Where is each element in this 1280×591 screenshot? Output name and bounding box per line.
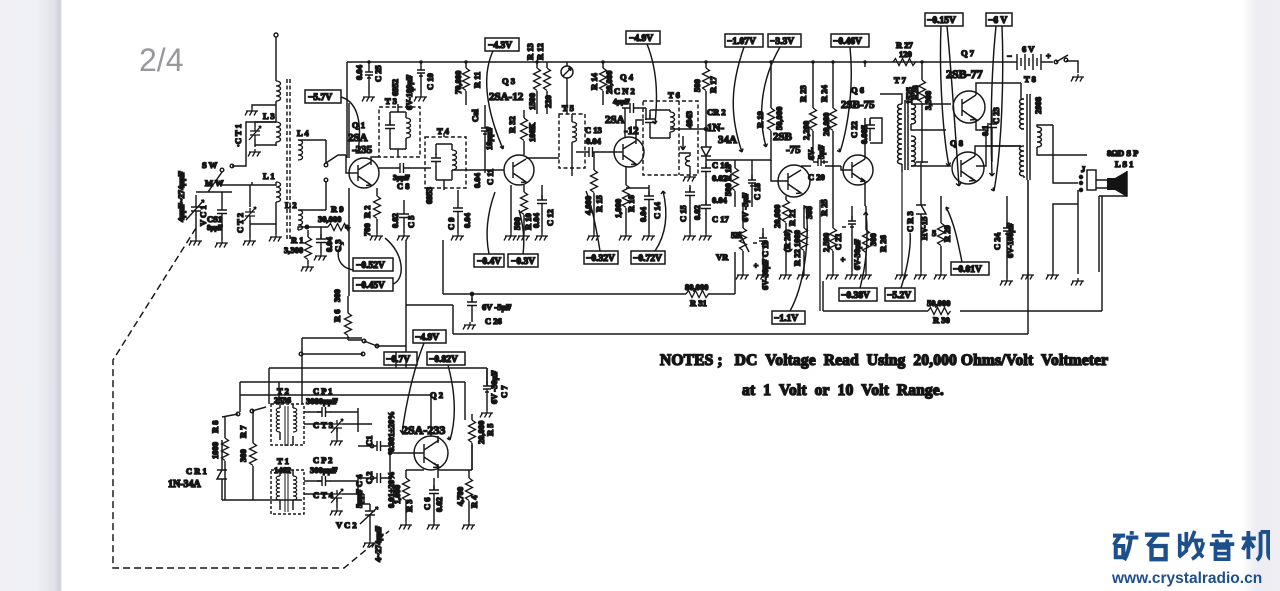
ground C9	[451, 233, 464, 241]
svg-text:300: 300	[868, 233, 878, 246]
svg-text:R 17: R 17	[708, 75, 718, 93]
svg-text:1,000: 1,000	[613, 199, 623, 218]
wire Q4 collector	[636, 120, 644, 144]
svg-text:4,700: 4,700	[455, 487, 465, 506]
svg-text:R 4: R 4	[469, 495, 479, 508]
ground R16	[619, 233, 632, 241]
wire L2 top	[298, 209, 326, 211]
svg-text:CS1: CS1	[207, 214, 222, 224]
cap CN2	[625, 103, 639, 113]
trimmer CT3	[331, 419, 343, 433]
trimmer CT1	[249, 126, 261, 140]
OT primary upper	[1020, 99, 1025, 129]
leader -0.72V	[655, 191, 666, 251]
resistor R16	[623, 185, 630, 208]
ground spk1	[1046, 272, 1059, 280]
resistor R29	[938, 223, 945, 246]
ground CS1	[215, 240, 228, 248]
wire CT1 leads	[255, 122, 276, 147]
svg-text:R 7: R 7	[238, 425, 248, 438]
cap C3	[316, 234, 326, 248]
voltage box -0.7V	[384, 352, 417, 365]
transistor Q1	[349, 158, 379, 188]
variable cap VC2	[360, 504, 378, 540]
ground R3	[399, 522, 412, 530]
svg-text:4943: 4943	[684, 111, 694, 128]
resistor R18	[732, 168, 739, 191]
speaker LS1	[1107, 171, 1127, 197]
svg-text:R 13: R 13	[525, 43, 535, 60]
voltage box -0.45V	[353, 278, 393, 291]
svg-text:0.04: 0.04	[462, 212, 472, 228]
svg-text:NOTES ; DC Voltage Read U: NOTES ; DC Voltage Read Using 20,000 Ohm…	[660, 352, 1108, 369]
svg-text:3,300: 3,300	[284, 245, 303, 255]
ground C25	[362, 94, 375, 102]
svg-text:100K: 100K	[527, 122, 537, 142]
svg-text:1N-34A: 1N-34A	[168, 479, 202, 490]
voltage box -0.72V	[631, 251, 665, 264]
svg-text:T 6: T 6	[668, 90, 680, 100]
svg-text:1000: 1000	[210, 442, 220, 459]
svg-text:6V-: 6V-	[806, 147, 816, 160]
svg-text:C 24: C 24	[992, 232, 1002, 250]
osc tank2 wires	[304, 476, 364, 508]
cap C19 electrolytic	[759, 233, 767, 248]
watermark char ji	[1242, 531, 1272, 560]
svg-text:5μμF C 4: 5μμF C 4	[354, 474, 364, 508]
svg-text:20,000: 20,000	[772, 205, 782, 228]
svg-text:−0.45V: −0.45V	[356, 281, 385, 291]
T1 wires	[280, 470, 293, 510]
svg-text:C 20: C 20	[808, 172, 825, 182]
wire VC2 top	[358, 494, 370, 504]
svg-text:R 29: R 29	[942, 225, 952, 242]
cap C9	[453, 203, 463, 217]
T3 coil	[406, 118, 411, 138]
wire Q1 base	[350, 172, 358, 174]
ground C14	[642, 233, 655, 241]
svg-text:−0.32V: −0.32V	[586, 254, 615, 264]
ground C17	[699, 233, 712, 241]
resistor R24	[830, 108, 837, 131]
resistor R14	[600, 68, 607, 91]
diode CR2	[701, 129, 711, 164]
T3 cap	[385, 120, 395, 134]
voltage box -5.7V	[305, 90, 361, 152]
leader -0.32V	[586, 191, 600, 251]
svg-text:6V-30μF C 19: 6V-30μF C 19	[760, 240, 770, 290]
voltage box -0.82V	[427, 352, 465, 440]
svg-text:5: 5	[932, 228, 936, 238]
svg-text:R 19: R 19	[755, 111, 765, 128]
cap C2	[372, 473, 386, 483]
resistor R17	[703, 68, 710, 91]
transformer T4 dashed box	[425, 137, 466, 188]
voltage box -0.38V	[839, 212, 877, 301]
svg-text:0.1: 0.1	[980, 125, 990, 136]
svg-text:1,000: 1,000	[392, 485, 402, 504]
ground L3	[248, 149, 261, 157]
cap C24 electrolytic	[1003, 223, 1011, 238]
T6 sec coil	[686, 156, 691, 166]
svg-text:R 32: R 32	[507, 116, 517, 133]
svg-text:−0.72V: −0.72V	[633, 254, 662, 264]
voltage box -0.15V	[925, 13, 963, 186]
svg-text:Q 7: Q 7	[961, 48, 975, 58]
wire Q8 collector	[975, 146, 1021, 156]
wire Q1 collector up	[371, 157, 379, 165]
wire Q6 emitter	[864, 182, 866, 206]
wire antenna down	[275, 37, 277, 81]
svg-text:R 6: R 6	[332, 309, 342, 322]
svg-text:34A: 34A	[718, 134, 737, 146]
voltage box -6V	[986, 13, 1012, 191]
svg-text:C 23: C 23	[991, 107, 1001, 124]
svg-text:C T 4: C T 4	[313, 490, 334, 500]
ground VC2	[363, 540, 376, 548]
trimmer CT2	[244, 207, 256, 221]
svg-text:−0.52V: −0.52V	[356, 261, 385, 271]
svg-text:R 1: R 1	[291, 235, 304, 245]
svg-text:R 9: R 9	[331, 204, 344, 214]
svg-text:R 31: R 31	[690, 298, 707, 308]
resistor R11	[463, 68, 470, 91]
svg-text:T 7: T 7	[894, 75, 907, 85]
svg-text:−4.9V: −4.9V	[415, 333, 439, 343]
ground C24	[1000, 278, 1013, 286]
antenna terminal	[274, 33, 278, 37]
svg-text:+: +	[838, 257, 848, 262]
svg-text:Q 3: Q 3	[502, 76, 515, 86]
svg-text:C 5: C 5	[406, 215, 416, 228]
T6 coil	[670, 112, 675, 132]
svg-text:R 2: R 2	[362, 205, 372, 218]
svg-text:C 17: C 17	[712, 214, 730, 224]
svg-text:6 V: 6 V	[1022, 44, 1035, 54]
resistor R9	[328, 224, 351, 231]
svg-text:0.02: 0.02	[434, 497, 444, 512]
svg-text:2908: 2908	[1033, 97, 1043, 114]
ground T6	[683, 174, 696, 182]
svg-text:2536: 2536	[274, 395, 291, 405]
ground C10	[414, 94, 427, 102]
svg-text:500: 500	[692, 79, 702, 92]
T4 cap	[431, 153, 441, 167]
leader -0.45V	[385, 238, 401, 284]
output transformer core	[1027, 94, 1030, 180]
svg-text:20,000: 20,000	[604, 71, 614, 94]
cap C22	[865, 120, 875, 134]
svg-text:220: 220	[543, 95, 553, 108]
svg-text:−0.82V: −0.82V	[429, 355, 458, 365]
svg-text:6V-100μF: 6V-100μF	[404, 75, 414, 110]
svg-text:−0.01V: −0.01V	[953, 265, 982, 275]
svg-text:C 25: C 25	[373, 65, 383, 82]
voltage box -0.01V	[946, 207, 989, 275]
svg-text:−0.15V: −0.15V	[927, 16, 956, 26]
resistor R25	[830, 228, 837, 251]
cap C14	[644, 191, 654, 205]
svg-text:50,000: 50,000	[774, 107, 784, 130]
svg-text:300: 300	[804, 206, 814, 219]
cap C13	[584, 147, 598, 157]
svg-text:R 3: R 3	[404, 499, 414, 512]
ground VR	[736, 272, 749, 280]
ground C5	[397, 233, 410, 241]
svg-text:0.02: 0.02	[390, 213, 400, 228]
T7 wires	[880, 94, 951, 172]
cap C21 electrolytic	[848, 216, 856, 231]
wire det bus	[706, 160, 752, 207]
transistor Q3	[504, 155, 534, 185]
svg-text:-12: -12	[624, 125, 639, 137]
resistor R19	[768, 108, 775, 131]
ground	[245, 108, 258, 116]
svg-text:0.04: 0.04	[586, 136, 602, 146]
svg-text:700: 700	[362, 223, 372, 236]
ground R15	[587, 233, 600, 241]
resistor R28	[919, 80, 926, 103]
svg-text:Q 1: Q 1	[352, 120, 365, 130]
resistor R3	[403, 478, 410, 501]
voltage box -5.2V	[885, 233, 915, 301]
svg-text:R 15: R 15	[594, 195, 604, 212]
voltage box -0.52V	[353, 258, 393, 271]
svg-text:70,000: 70,000	[453, 71, 463, 94]
wire L4	[298, 140, 326, 160]
svg-text:C 9: C 9	[446, 217, 456, 230]
svg-text:C 6: C 6	[422, 497, 432, 510]
svg-text:VR: VR	[716, 252, 729, 262]
voltage box -4.9V osc	[400, 330, 446, 433]
svg-text:C P 1: C P 1	[313, 386, 332, 396]
resistor R30	[928, 308, 951, 315]
wire sw to L1	[222, 182, 252, 185]
wire base feed	[338, 155, 350, 173]
OT wires	[1021, 99, 1053, 178]
T7 sec upper	[911, 104, 916, 124]
transistor Q5	[778, 165, 810, 197]
svg-text:J: J	[1081, 164, 1086, 174]
watermark char shi	[1145, 535, 1169, 559]
resistor R8	[222, 438, 229, 461]
svg-text:C 10: C 10	[425, 73, 435, 90]
cap C6	[429, 485, 439, 499]
svg-text:C T 3: C T 3	[313, 420, 333, 430]
transformer T2 box	[271, 404, 304, 445]
resistor R26	[863, 230, 870, 253]
svg-text:2SB: 2SB	[773, 131, 793, 143]
ground switch	[1071, 74, 1084, 82]
svg-text:C R 1: C R 1	[186, 466, 207, 476]
T4 coil	[452, 150, 457, 170]
svg-text:T 8: T 8	[1024, 74, 1036, 84]
transistor Q8	[952, 152, 984, 184]
svg-text:C P 2: C P 2	[313, 455, 332, 465]
svg-text:T 5: T 5	[562, 103, 574, 113]
ground C12	[535, 233, 548, 241]
dash-dot tuning line	[113, 228, 389, 568]
svg-text:3080μμF: 3080μμF	[306, 396, 338, 406]
svg-text:6952: 6952	[390, 79, 400, 96]
cap C17	[701, 200, 711, 214]
ground C19	[756, 272, 769, 280]
coil L4	[298, 140, 303, 160]
svg-text:50,000: 50,000	[927, 298, 950, 308]
svg-text:C 18: C 18	[752, 183, 762, 200]
svg-text:at 1 Volt or 10 Volt Ran: at 1 Volt or 10 Volt Range.	[742, 382, 944, 399]
svg-text:Q 2: Q 2	[430, 390, 443, 400]
svg-text:+: +	[1046, 51, 1051, 61]
svg-text:6V -5μF: 6V -5μF	[740, 193, 750, 222]
top supply rail	[347, 61, 905, 63]
svg-text:−3.3V: −3.3V	[770, 37, 794, 47]
svg-text:·C T 1: ·C T 1	[233, 124, 243, 147]
cap C11	[481, 123, 489, 138]
svg-text:C 12: C 12	[545, 209, 555, 226]
watermark char kuang	[1113, 531, 1138, 560]
leader -0.3V	[519, 210, 524, 254]
T2 wires	[280, 404, 293, 445]
svg-text:5μF: 5μF	[816, 145, 826, 159]
T5 coil	[572, 122, 577, 142]
svg-text:C T 2: C T 2	[235, 213, 245, 233]
svg-text:3,300: 3,300	[923, 91, 933, 110]
ground T7	[895, 272, 908, 280]
voltage box -4.3V	[485, 38, 519, 149]
svg-text:30,000: 30,000	[318, 214, 341, 224]
cap C8 series	[395, 163, 409, 173]
svg-text:4μμF: 4μμF	[613, 97, 630, 106]
T3 wires	[390, 112, 406, 157]
agc vertical	[348, 103, 350, 296]
T6 inner partition	[678, 101, 680, 175]
cap C26	[467, 297, 477, 311]
svg-text:20,000: 20,000	[821, 113, 831, 136]
svg-text:−6 V: −6 V	[988, 16, 1007, 26]
svg-text:10μμF: 10μμF	[484, 127, 494, 150]
coil L3	[276, 122, 281, 142]
ground R1	[301, 264, 314, 272]
svg-text:L S 1: L S 1	[1115, 159, 1133, 169]
cap CS1	[217, 205, 227, 219]
resistor R21	[783, 200, 790, 223]
svg-text:2SA: 2SA	[348, 132, 368, 144]
svg-text:-75: -75	[786, 144, 801, 156]
svg-text:−5.7V: −5.7V	[308, 93, 332, 103]
ground Q3e	[504, 233, 517, 241]
svg-text:R 16: R 16	[626, 195, 636, 212]
cap C20 series	[813, 158, 828, 166]
svg-text:C 26: C 26	[485, 316, 502, 326]
switch contacts to Q1 base	[324, 163, 328, 167]
cap C12	[537, 195, 547, 209]
svg-text:8μμF: 8μμF	[207, 224, 223, 232]
output stage frame	[823, 196, 1102, 311]
leader -0.4V	[487, 192, 495, 254]
svg-text:Cal: Cal	[470, 109, 480, 122]
svg-text:V C 2: V C 2	[336, 520, 357, 530]
wire Q5 base	[752, 160, 788, 181]
osc bus lower	[240, 338, 431, 436]
transistor Q4	[614, 137, 644, 167]
coil L1	[276, 182, 281, 202]
svg-text:0.005: 0.005	[859, 125, 869, 144]
T7 sec lower	[911, 136, 916, 166]
wire T4 out to Q3	[452, 169, 504, 171]
svg-text:L 2: L 2	[285, 200, 297, 210]
variable cap VC1	[186, 195, 204, 238]
cap CP1	[317, 407, 331, 417]
svg-text:2SA-233: 2SA-233	[402, 423, 445, 437]
wire Q2 base	[390, 452, 424, 454]
trimmer CT4	[331, 489, 343, 503]
watermark char shou	[1179, 531, 1203, 559]
transformer T5 dashed box	[559, 114, 585, 168]
osc switch	[236, 412, 240, 416]
coil L2	[298, 210, 303, 230]
resistor R10	[521, 192, 528, 215]
wire meter	[566, 62, 568, 114]
ground spk2	[1071, 278, 1084, 286]
resistor R31	[686, 291, 709, 298]
svg-text:−1.1V: −1.1V	[774, 314, 798, 324]
volume VR 5K	[740, 228, 747, 251]
cap C1	[372, 441, 386, 451]
svg-text:0.04: 0.04	[638, 206, 648, 222]
ground OT	[1021, 272, 1034, 280]
svg-text:R 21: R 21	[787, 209, 797, 226]
svg-text:120: 120	[899, 49, 912, 59]
svg-text:−: −	[1007, 51, 1012, 61]
resistor R13	[534, 68, 541, 91]
resistor R2	[374, 196, 381, 219]
transformer T6 dashed box	[643, 101, 698, 175]
wire T3 top to rail	[397, 104, 399, 112]
cap C15	[685, 187, 695, 201]
svg-text:6V-100μF: 6V-100μF	[1005, 223, 1015, 258]
svg-text:2SA-12: 2SA-12	[489, 91, 524, 103]
svg-text:R 23: R 23	[798, 85, 808, 102]
wire CS1	[196, 192, 232, 240]
agc curve arrow	[338, 242, 365, 270]
wire CT2	[250, 185, 276, 238]
resistor R5	[469, 420, 476, 443]
svg-text:1500: 1500	[527, 93, 537, 110]
resistor R4	[466, 478, 473, 501]
svg-text:−4.9V: −4.9V	[629, 34, 653, 44]
voltage box -3.3V	[762, 34, 801, 147]
osc coupling wires	[358, 446, 390, 478]
bus agc lower	[443, 240, 735, 294]
svg-text:C 11: C 11	[485, 169, 495, 185]
resistor R15	[591, 170, 598, 193]
OT primary lower	[1020, 146, 1025, 176]
svg-text:500: 500	[512, 217, 522, 230]
gang dashed link	[287, 79, 290, 240]
svg-text:0.04: 0.04	[472, 172, 482, 188]
cap C18 electrolytic	[748, 175, 756, 190]
transistor Q7	[953, 91, 985, 123]
wire speaker return	[1053, 171, 1127, 274]
voltage box -4.9V	[626, 31, 660, 124]
resistor R22	[801, 228, 808, 251]
svg-text:5K: 5K	[731, 230, 742, 240]
ground C7	[480, 410, 493, 418]
wire R7 R8 bottom	[225, 475, 253, 500]
svg-text:−0.4V: −0.4V	[477, 257, 501, 267]
ground R25	[826, 272, 839, 280]
